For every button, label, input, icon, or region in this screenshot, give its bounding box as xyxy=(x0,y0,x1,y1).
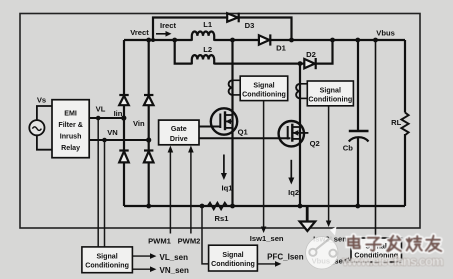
resistor Rs1 xyxy=(202,203,232,209)
svg-text:PWM2: PWM2 xyxy=(178,236,201,245)
svg-text:Inrush: Inrush xyxy=(60,133,82,141)
wire: PWM2 vertical into gate drive xyxy=(190,150,192,234)
node column B ground junction xyxy=(146,204,151,209)
svg-text:Signal: Signal xyxy=(320,86,341,94)
svg-text:Vrect: Vrect xyxy=(130,28,149,37)
ground symbol xyxy=(300,206,316,231)
svg-text:L1: L1 xyxy=(203,20,213,29)
diode lower pair column A xyxy=(119,151,129,163)
svg-text:Iin: Iin xyxy=(114,109,123,118)
MOSFET Q2 xyxy=(279,121,309,146)
svg-text:Signal: Signal xyxy=(96,253,117,261)
svg-text:D1: D1 xyxy=(276,44,286,53)
svg-text:Vs: Vs xyxy=(37,95,46,104)
wire: PWM1 vertical into gate drive xyxy=(169,150,171,234)
node Rs1 left junction xyxy=(200,204,205,209)
MOSFET Q1 xyxy=(211,108,237,134)
svg-text:Vbus: Vbus xyxy=(376,28,395,37)
PWM2 input arrowhead into gate drive xyxy=(188,146,194,153)
node Q2 drain junction xyxy=(298,61,303,66)
signal conditioning box U4 (top right) xyxy=(307,81,353,106)
arrow output VN_sen xyxy=(132,266,156,272)
svg-text:Rs1: Rs1 xyxy=(215,214,230,223)
signal conditioning box U6 (bottom middle) xyxy=(209,245,258,271)
svg-text:VN_sen: VN_sen xyxy=(160,266,189,275)
wire: diode column A vertical x=124 xyxy=(123,40,125,206)
svg-text:RL: RL xyxy=(391,118,401,127)
node Vbus sense tap xyxy=(373,38,378,43)
svg-text:Signal: Signal xyxy=(253,81,274,89)
svg-text:Cb: Cb xyxy=(343,144,353,153)
diode D2 xyxy=(304,58,315,69)
node VN column B junction xyxy=(146,137,151,142)
wire: VN line from EMI box to column B xyxy=(89,139,149,141)
EMI Filter & Inrush Relay box xyxy=(52,100,89,158)
node Rs1 right / Q1 source junction xyxy=(230,204,235,209)
wire: main Vrect/Vbus bus y=40 from node A column to RL corner xyxy=(124,39,192,41)
inductor L2 xyxy=(192,55,214,64)
resistor RL xyxy=(401,113,408,136)
wire: diode column B vertical x=148.7 xyxy=(148,40,150,206)
arrow Iq2 xyxy=(288,160,294,185)
wire: Rs1 left node branch down to PFC sense box xyxy=(202,206,209,264)
wire: VL_sen vertical tap x=98.2 down to bottom signal conditioning box xyxy=(97,118,99,247)
wire: Isw1_sen output from signal conditioning U3 down to label xyxy=(263,101,265,229)
svg-text:VN: VN xyxy=(107,128,118,137)
svg-text:Relay: Relay xyxy=(61,144,80,152)
PWM1 input arrowhead into gate drive xyxy=(168,146,174,153)
svg-text:EMI: EMI xyxy=(64,110,77,118)
signal conditioning box U5 (bottom left) xyxy=(82,247,132,273)
wire: VN_sen vertical tap x=104.5 down to bottom signal conditioning box xyxy=(104,140,106,247)
svg-text:D3: D3 xyxy=(245,21,255,30)
node Vrect column B junction xyxy=(146,38,151,43)
node Isw1_sen arrowhead xyxy=(261,227,267,234)
arrow output VL_sen xyxy=(132,253,156,259)
svg-text:Iq1: Iq1 xyxy=(222,184,234,193)
svg-text:Drive: Drive xyxy=(170,135,188,143)
node D2 branch join xyxy=(330,38,335,43)
wire: Isw2_sen output from signal conditioning U4 down to label xyxy=(328,106,330,224)
svg-text:Q1: Q1 xyxy=(238,128,249,137)
watermark: big bottom-right "dianzifashaoyou" with white glow xyxy=(348,236,441,252)
wire: bottom ground bus y=206 xyxy=(124,205,405,207)
node Isw2_sen arrowhead xyxy=(326,221,332,228)
node Cb bottom junction xyxy=(355,204,360,209)
wire: Vs to EMI box top xyxy=(37,106,52,120)
wire: L2 branch from node at x=174.7 down and right to D2 then up to bus at x=332.5 xyxy=(175,40,192,64)
svg-text:Conditioning: Conditioning xyxy=(308,95,352,103)
svg-text:PWM1: PWM1 xyxy=(148,236,172,245)
svg-text:VL: VL xyxy=(96,105,106,114)
wire: VL line from EMI box to column A xyxy=(89,117,124,119)
arrow output PFC_Isen xyxy=(257,261,281,267)
wire: Irect top line y=17.5 with riser from Vrect bus at x=153 xyxy=(153,18,292,41)
node Irect riser junction xyxy=(151,38,155,42)
svg-text:Conditioning: Conditioning xyxy=(242,90,286,98)
svg-text:Irect: Irect xyxy=(160,21,177,30)
svg-text:VL_sen: VL_sen xyxy=(160,253,189,262)
wire: Cb vertical x=358 xyxy=(357,40,359,131)
svg-text:Gate: Gate xyxy=(171,125,187,133)
svg-text:Filter &: Filter & xyxy=(58,121,82,129)
node Q1 drain junction xyxy=(230,38,235,43)
gate drive box xyxy=(159,120,199,145)
diode upper pair column A xyxy=(119,95,129,105)
signal conditioning box U7 (bottom right) xyxy=(351,238,402,262)
wire: Vbus_sen vertical x=375.5 from bus down to bottom-right box xyxy=(375,40,377,239)
node Q2 source junction xyxy=(298,204,303,209)
svg-text:Conditioning: Conditioning xyxy=(85,262,129,270)
wire: gate drive output to Q2 gate xyxy=(199,137,290,139)
AC source Vs xyxy=(29,120,44,135)
arrow Iq1 xyxy=(221,155,227,181)
diode D3 xyxy=(227,13,239,23)
wire: gate drive output to Q1 gate xyxy=(199,126,220,128)
svg-text:Iq2: Iq2 xyxy=(288,188,299,197)
svg-text:Q2: Q2 xyxy=(310,139,320,148)
node VL column A junction xyxy=(121,115,126,120)
node L2 branch junction xyxy=(172,38,177,43)
wire: Q2 drain-source vertical x=300 from L2 line to bottom bus xyxy=(299,64,301,206)
node Cb top junction xyxy=(355,38,360,43)
diode upper pair column B xyxy=(144,95,154,105)
node VL sense tap xyxy=(96,116,101,121)
capacitor Cb xyxy=(349,131,369,142)
outer schematic border frame xyxy=(20,14,420,229)
svg-text:Signal: Signal xyxy=(222,251,243,259)
current transformer CT1 on Q1 drain xyxy=(229,80,241,95)
node D3 cathode join xyxy=(289,38,294,43)
wire: Vs to EMI box bottom xyxy=(37,135,52,149)
signal conditioning box U3 (top left) xyxy=(240,76,288,101)
svg-text:PFC_Isen: PFC_Isen xyxy=(267,252,304,261)
svg-text:Conditioning: Conditioning xyxy=(211,260,255,268)
diode D1 xyxy=(259,34,270,45)
wire: RL vertical x=405 xyxy=(404,40,406,113)
svg-text:D2: D2 xyxy=(306,50,316,59)
diode lower pair column B xyxy=(144,151,154,163)
current transformer CT2 on Q2 drain xyxy=(296,84,307,99)
arrow output Vbus_sen xyxy=(343,258,351,264)
inductor L1 xyxy=(192,31,214,40)
svg-text:Vin: Vin xyxy=(133,119,145,128)
svg-text:www.elecfans.com: www.elecfans.com xyxy=(342,254,444,269)
watermark logo circle xyxy=(306,227,338,270)
node VN sense tap xyxy=(102,138,107,143)
wire: Q1 drain-source vertical x=232.5 from bus to bottom bus xyxy=(231,40,233,206)
svg-text:L2: L2 xyxy=(203,45,212,54)
svg-text:Isw1_sen: Isw1_sen xyxy=(250,234,284,243)
